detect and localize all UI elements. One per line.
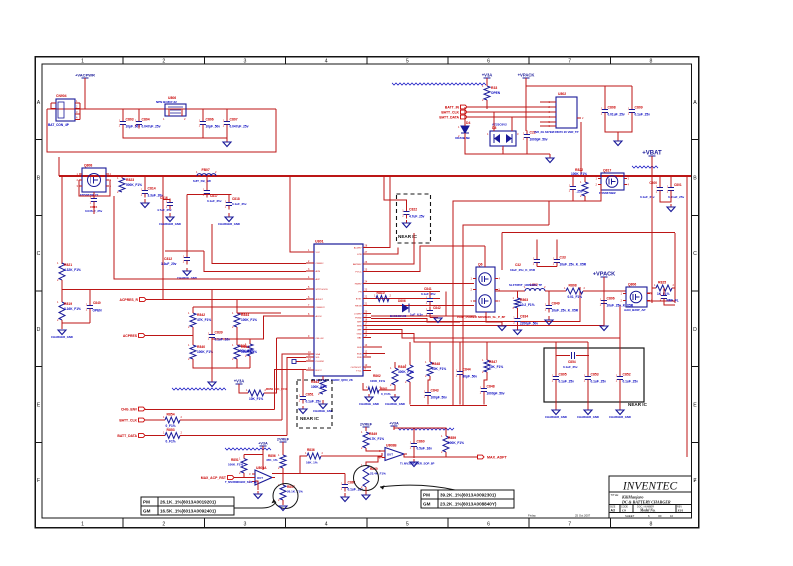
capacitor C808 — [601, 106, 625, 117]
svg-text:300K_F1%: 300K_F1% — [398, 370, 414, 374]
wire batt_data row — [145, 435, 165, 437]
wire c33 top — [556, 240, 558, 256]
capacitor C32 — [533, 256, 540, 267]
label C817 — [207, 194, 222, 203]
wire r862 top — [394, 362, 396, 368]
wire r844 top — [236, 300, 238, 314]
wire U806 left pin — [168, 109, 170, 116]
transistor Q808 — [77, 164, 112, 198]
wire net r848 top — [429, 342, 431, 362]
capacitor C840 — [86, 302, 102, 313]
wire net r846 top — [409, 342, 411, 365]
svg-text:R808: R808 — [569, 284, 577, 288]
svg-text:8: 8 — [649, 522, 652, 528]
capacitor C817 — [203, 187, 210, 198]
wire op1 plus dn — [255, 481, 258, 490]
svg-text:100K_F1%: 100K_F1% — [571, 172, 587, 176]
svg-text:2200pF_50v: 2200pF_50v — [520, 322, 538, 326]
wire c840 drop — [89, 290, 91, 302]
wire coil to r808 — [545, 290, 566, 292]
wire c860 gnd — [413, 451, 415, 459]
svg-text:NPN BC807-22: NPN BC807-22 — [156, 100, 177, 104]
ground c834 — [514, 326, 522, 335]
svg-text:+V3A: +V3A — [482, 73, 493, 78]
svg-text:CHARGER_GND: CHARGER_GND — [577, 415, 599, 419]
resistor R858 — [361, 430, 384, 450]
svg-text:LODRV: LODRV — [354, 314, 362, 316]
wire r863 c834 — [517, 308, 519, 315]
label C841 — [421, 287, 436, 296]
wire c840 dn — [89, 313, 91, 324]
wire row A 289 — [62, 289, 306, 291]
wire c806b top — [603, 291, 605, 297]
svg-text:R848: R848 — [432, 362, 440, 366]
resistor R851 — [239, 457, 247, 476]
svg-text:PVCC: PVCC — [355, 272, 361, 274]
wire top rail — [47, 108, 276, 110]
svg-text:47K_F1%: 47K_F1% — [197, 318, 211, 322]
svg-text:Model No.: Model No. — [639, 509, 656, 513]
wire U801 acok L — [212, 316, 306, 339]
wire r851 top — [244, 454, 263, 456]
svg-text:C842: C842 — [433, 306, 441, 310]
capacitor C834 — [513, 315, 538, 326]
capacitor C22 — [523, 131, 548, 142]
svg-text:OUT: OUT — [257, 476, 263, 480]
label opamp1 part — [225, 480, 257, 484]
wire D8 pin3 — [511, 117, 513, 131]
svg-text:Q808: Q808 — [84, 164, 92, 168]
svg-text:A: A — [37, 100, 41, 106]
wire c861 top — [344, 474, 346, 481]
svg-text:3: 3 — [244, 522, 247, 528]
capacitor C851 — [299, 393, 321, 404]
wire U801 batdrv — [371, 233, 414, 264]
wire D8 pin2 — [502, 146, 504, 154]
svg-text:Q817: Q817 — [603, 169, 611, 173]
ground CHARGER_GND sb3 — [609, 406, 631, 419]
svg-text:0.047uF_25v: 0.047uF_25v — [230, 125, 249, 129]
svg-text:C807: C807 — [230, 118, 238, 122]
wire U801 scl — [287, 358, 306, 436]
ground CHARGE_GND b — [385, 394, 405, 406]
svg-text:3.3uF_20v: 3.3uF_20v — [161, 262, 177, 266]
label C801 — [668, 183, 685, 199]
svg-text:1: 1 — [81, 522, 84, 528]
wire R823 top — [121, 176, 123, 178]
svg-text:NEAR IC: NEAR IC — [300, 416, 320, 421]
svg-text:+VPACK: +VPACK — [518, 73, 535, 78]
svg-text:+V3A: +V3A — [258, 442, 268, 446]
svg-text:C812: C812 — [164, 257, 172, 261]
svg-text:C803: C803 — [126, 118, 134, 122]
resistor R33 — [482, 84, 501, 102]
wire batt_data bus — [467, 116, 556, 118]
svg-text:10K_F1%: 10K_F1% — [432, 367, 446, 371]
svg-text:U801: U801 — [315, 240, 324, 244]
resistor R853 — [163, 428, 183, 444]
wire r816 dn — [249, 356, 251, 368]
svg-text:C800: C800 — [649, 181, 657, 185]
wire c852 vert — [619, 338, 621, 373]
selection circle 2 — [354, 466, 379, 491]
resistor R847 — [482, 358, 503, 374]
svg-text:INVENTEC: INVENTEC — [622, 481, 678, 493]
svg-text:C818: C818 — [232, 197, 240, 201]
resistor R816 — [238, 342, 254, 358]
svg-text:CMSRC2: CMSRC2 — [316, 307, 326, 309]
resistor R822 — [580, 180, 588, 198]
svg-text:+V3A: +V3A — [389, 422, 399, 426]
connector MAX_ACP_RST — [201, 476, 234, 480]
net squiggle VREF — [172, 388, 226, 390]
svg-text:ACN: ACN — [316, 270, 321, 273]
capacitor C818 — [225, 199, 232, 210]
svg-text:+V3A: +V3A — [234, 379, 245, 384]
svg-text:C32: C32 — [515, 263, 521, 267]
wire U801 pgnd — [371, 318, 460, 322]
ground CHARGER_GND sb1 — [545, 406, 567, 419]
wire r841 dn — [236, 359, 238, 368]
svg-text:U808B: U808B — [386, 444, 397, 448]
svg-text:4.7uF_25v: 4.7uF_25v — [157, 208, 172, 212]
wire r857 gnd — [282, 500, 284, 505]
svg-text:BATT_CLK: BATT_CLK — [119, 418, 137, 422]
capacitor C803 — [119, 118, 140, 129]
title block — [609, 476, 692, 518]
svg-text:FUB: FUB — [357, 357, 362, 359]
svg-text:BOOT: BOOT — [316, 370, 323, 372]
wire r816 stub — [249, 339, 251, 344]
ground CHARGE_GND r843 — [313, 400, 333, 413]
svg-text:BATDRV: BATDRV — [353, 263, 362, 266]
wire r840 dn — [193, 359, 237, 368]
svg-text:STTPGOOD: STTPGOOD — [316, 289, 329, 291]
wire vbat rail down — [651, 176, 653, 303]
label C840 — [93, 301, 101, 305]
wire nested L pin2 — [212, 224, 306, 264]
svg-text:4.7uF_25v: 4.7uF_25v — [409, 215, 425, 219]
wire U801 btst — [371, 298, 440, 300]
wire C806 bottom — [202, 129, 204, 139]
wire +VACPWR to rail — [84, 78, 86, 109]
net squiggle opamp area — [225, 448, 271, 450]
resistor R848 — [425, 360, 446, 378]
capacitor C822 — [402, 208, 424, 219]
svg-text:4.7K_F1%: 4.7K_F1% — [369, 437, 384, 441]
svg-text:C860: C860 — [417, 440, 425, 444]
power symbol +VPACK top — [518, 73, 535, 79]
wire Q808 bottom cap — [93, 192, 95, 195]
net squiggle vbat — [632, 166, 658, 168]
svg-text:500K_F1%: 500K_F1% — [126, 183, 142, 187]
NEAR IC dashed box 3 — [297, 380, 332, 428]
wire net r847 top — [486, 342, 488, 360]
wire r860 gnd — [365, 487, 367, 491]
wire q6 right vert — [501, 233, 503, 271]
label opamp2 part — [400, 462, 434, 466]
svg-text:100K_F1%: 100K_F1% — [370, 379, 385, 383]
ground op2 — [362, 491, 370, 500]
svg-text:B: B — [37, 176, 41, 182]
label R860 — [370, 467, 386, 476]
svg-text:GTN: GTN — [357, 254, 362, 256]
svg-text:C: C — [693, 251, 697, 257]
resistor R842 — [188, 311, 211, 329]
wire U801 srn — [371, 287, 604, 326]
svg-text:47K_1%: 47K_1% — [266, 458, 278, 462]
wire C808 C809 bottom — [605, 117, 632, 133]
wire c805 dn — [555, 384, 557, 407]
power symbol +V3A mid — [234, 379, 245, 389]
resistor R821 — [57, 261, 81, 282]
wire 2vref op1 dn — [282, 442, 284, 455]
wire r862 r861 — [379, 385, 395, 390]
svg-text:0.5uF_16v: 0.5uF_16v — [417, 447, 433, 451]
wire c839 top — [211, 290, 213, 331]
ground batt area — [546, 154, 554, 163]
ground c842 — [434, 318, 442, 323]
wire U801 pin6 row — [62, 289, 306, 291]
wire D4 top — [464, 107, 466, 126]
svg-text:R854: R854 — [167, 413, 175, 417]
wire nested L pin3 — [204, 251, 306, 272]
wire join to gnd — [617, 132, 619, 141]
revision mark f — [695, 477, 697, 482]
wire c32 bottom — [537, 266, 557, 268]
wire U801 hidrv — [371, 283, 474, 285]
capacitor C854 inline — [556, 352, 589, 369]
svg-text:100K_F1%: 100K_F1% — [228, 463, 243, 467]
svg-text:26.1K_F1%: 26.1K_F1% — [287, 490, 303, 494]
wire r859 dn — [445, 452, 447, 457]
wire top rail 233 — [502, 232, 675, 234]
wire cap C807 stub — [226, 109, 228, 118]
wire long vert 163 — [162, 176, 164, 300]
svg-text:D806: D806 — [398, 299, 406, 303]
svg-text:C843: C843 — [431, 389, 439, 393]
resistor R836 — [305, 451, 324, 459]
svg-text:1uF_6.3v: 1uF_6.3v — [410, 313, 423, 317]
wire D8 pin1 — [493, 112, 495, 131]
svg-text:2VREF: 2VREF — [360, 423, 373, 427]
svg-text:0.1uF_25v: 0.1uF_25v — [640, 195, 655, 199]
svg-text:CHARGE_GND: CHARGE_GND — [359, 402, 379, 406]
wire C808 top — [604, 86, 606, 106]
svg-text:5: 5 — [406, 522, 409, 528]
wire net c848 dn — [483, 396, 485, 405]
svg-text:0.1uF_25v: 0.1uF_25v — [421, 292, 436, 296]
svg-text:BATT_IN: BATT_IN — [445, 105, 460, 109]
svg-text:C33: C33 — [560, 256, 566, 260]
svg-text:100K_F1%: 100K_F1% — [241, 318, 257, 322]
svg-text:TTCL: TTCL — [356, 371, 362, 373]
svg-text:C822: C822 — [409, 208, 417, 212]
wire U801 boot row — [275, 370, 307, 410]
wire c817 stub bot — [206, 195, 208, 198]
wire v3a op2 — [394, 428, 446, 436]
svg-text:ACOK: ACOK — [316, 315, 323, 318]
svg-text:C806: C806 — [206, 118, 214, 122]
svg-text:3.16K_F1%: 3.16K_F1% — [64, 307, 81, 311]
wire net box bottom — [410, 405, 487, 407]
svg-text:R849: R849 — [369, 432, 377, 436]
svg-text:R844: R844 — [241, 313, 249, 317]
table PM GM 1 — [141, 497, 234, 515]
svg-text:C839: C839 — [215, 331, 223, 335]
svg-text:0.1uF_25v: 0.1uF_25v — [623, 380, 639, 384]
svg-text:CELLS2: CELLS2 — [316, 338, 325, 340]
svg-text:0.1uF_25v: 0.1uF_25v — [232, 202, 247, 206]
wire net right 2 — [237, 367, 250, 369]
svg-text:100pF_50v: 100pF_50v — [431, 396, 448, 400]
svg-text:NEAR IC: NEAR IC — [398, 234, 418, 239]
label C818 — [232, 197, 247, 206]
svg-text:C854: C854 — [568, 360, 576, 364]
wire cap C804 stub — [138, 109, 140, 118]
wire c812 rail — [165, 250, 204, 252]
svg-text:SLF7055T_100M1R0_TP: SLF7055T_100M1R0_TP — [509, 283, 542, 287]
label C815 — [85, 205, 103, 213]
svg-text:Q6: Q6 — [478, 263, 483, 267]
svg-text:10.2_F1%: 10.2_F1% — [520, 303, 535, 307]
label C816 — [157, 196, 172, 212]
label R822 — [571, 168, 587, 176]
connector BATT_CLK top — [441, 110, 467, 114]
resistor R862 — [390, 366, 398, 387]
wire U801 sub — [371, 346, 382, 348]
svg-text:X01: X01 — [677, 509, 684, 513]
wire q807 L down — [619, 305, 621, 338]
svg-text:0.01uF_25v: 0.01uF_25v — [608, 113, 625, 117]
svg-text:CHARGE_GND: CHARGE_GND — [313, 409, 333, 413]
svg-text:SUB: SUB — [357, 347, 362, 349]
wire c839 dn — [211, 342, 213, 379]
op-amp U808A — [249, 466, 275, 485]
svg-text:26.1K_1%(6013A0019201): 26.1K_1%(6013A0019201) — [160, 500, 216, 505]
wire c841 net — [429, 292, 431, 295]
wire vert 187 to c812 — [186, 195, 188, 254]
wire op1 out row — [272, 473, 345, 475]
svg-text:R863: R863 — [520, 298, 528, 302]
svg-text:C844: C844 — [463, 368, 471, 372]
wire U801 vcc — [290, 176, 306, 252]
ground c861 — [341, 493, 349, 502]
svg-text:U808A: U808A — [256, 466, 267, 470]
capacitor C812 — [183, 254, 190, 265]
svg-text:5: 5 — [406, 59, 409, 65]
wire cap C806 stub — [202, 109, 204, 118]
svg-text:NEAR IC: NEAR IC — [628, 402, 648, 407]
svg-text:100K_F1%: 100K_F1% — [311, 385, 327, 389]
svg-text:6: 6 — [487, 522, 490, 528]
svg-text:3: 3 — [244, 59, 247, 65]
svg-text:R823: R823 — [126, 178, 134, 182]
NEAR IC dashed box 1 — [397, 194, 431, 243]
svg-text:10pF_50v: 10pF_50v — [206, 125, 221, 129]
ground near ic 1 — [403, 220, 411, 228]
svg-text:FB07: FB07 — [202, 168, 210, 172]
svg-text:F: F — [37, 478, 40, 484]
wire +VPACK drop — [525, 86, 527, 131]
IC U802 battery connector — [534, 92, 584, 134]
svg-text:100K_F1%: 100K_F1% — [241, 350, 257, 354]
svg-text:OUTBOOT: OUTBOOT — [351, 367, 362, 369]
wire net r846 dn — [409, 382, 411, 405]
wire c845 to L2 — [548, 202, 550, 226]
svg-text:1: 1 — [81, 59, 84, 65]
wire U801 ph — [371, 291, 440, 293]
capacitor C816 — [166, 199, 173, 210]
capacitor C800 — [656, 184, 663, 195]
wire r842 r840 — [192, 327, 194, 345]
svg-text:MAX_ADPT: MAX_ADPT — [487, 456, 508, 460]
capacitor C813 — [569, 184, 583, 194]
svg-text:EUB: EUB — [357, 354, 362, 356]
wire v3a op1 dn — [262, 446, 264, 470]
wire U801 gtn — [371, 248, 398, 255]
svg-text:ACPRES: ACPRES — [123, 334, 138, 338]
capacitor C809 — [628, 106, 650, 117]
svg-text:16K_1%: 16K_1% — [306, 461, 318, 465]
svg-text:4.32K_F1%: 4.32K_F1% — [64, 268, 81, 272]
op-amp U808B — [379, 444, 407, 461]
svg-text:R836: R836 — [307, 448, 315, 452]
wire U801 pin12 — [296, 361, 306, 363]
wire r825 join — [652, 287, 656, 289]
svg-text:HIDRV: HIDRV — [355, 284, 362, 286]
wire r819 gnd rail — [62, 320, 90, 323]
svg-text:CHG_EN#: CHG_EN# — [121, 407, 137, 411]
svg-text:CHARGER_GND: CHARGER_GND — [51, 335, 73, 339]
capacitor C852 — [616, 373, 638, 384]
svg-text:C851: C851 — [306, 393, 314, 397]
capacitor C848 — [480, 385, 505, 396]
table PM GM 2 — [421, 490, 514, 508]
wire U801 cells — [277, 337, 307, 339]
svg-text:ACDRV: ACDRV — [354, 247, 362, 250]
wire c805 vert — [555, 342, 557, 373]
ground CHARGER_GND left — [51, 330, 73, 339]
wire U801 regn — [371, 305, 474, 307]
svg-text:4: 4 — [325, 59, 328, 65]
resistor R846 — [398, 363, 414, 384]
power symbol +V3A op2 — [389, 422, 399, 431]
wire U801 pvcc — [371, 246, 485, 272]
svg-text:OUT: OUT — [387, 453, 393, 457]
wire U801 pin7 row — [193, 306, 306, 308]
svg-text:C852: C852 — [623, 373, 631, 377]
svg-text:2VREF: 2VREF — [277, 438, 290, 442]
wire main B bus — [59, 175, 691, 177]
svg-text:0.1uF_16v: 0.1uF_16v — [215, 338, 231, 342]
svg-text:39.2K_1%(6013A0092301): 39.2K_1%(6013A0092301) — [440, 493, 496, 498]
svg-text:CHARGER_GND: CHARGER_GND — [159, 222, 181, 226]
capacitor C860 — [410, 440, 432, 451]
svg-text:SHEET: SHEET — [625, 514, 635, 518]
transistor Q6 pair — [471, 263, 501, 313]
svg-text:100K_F1%: 100K_F1% — [448, 441, 464, 445]
svg-text:0.1uF_25v: 0.1uF_25v — [563, 365, 578, 369]
svg-text:PM: PM — [423, 493, 430, 498]
wire left column vertical — [61, 176, 63, 264]
svg-text:ACP: ACP — [316, 278, 321, 281]
capacitor C33 — [553, 256, 587, 267]
power symbol +VPACK mid — [593, 272, 615, 282]
resistor R819 — [57, 300, 81, 322]
svg-text:CHARGER_GND: CHARGER_GND — [545, 415, 567, 419]
wire r836 right — [321, 453, 382, 456]
